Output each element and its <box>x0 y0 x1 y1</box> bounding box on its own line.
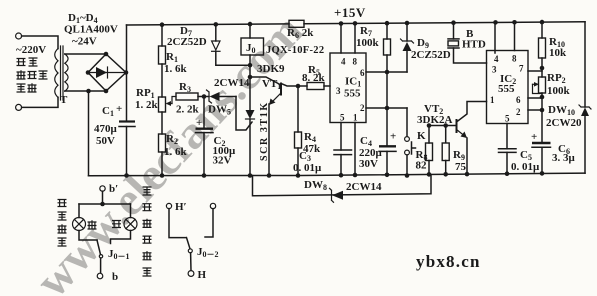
zener diode DW5 2CW14 <box>207 90 212 103</box>
svg-text:3DK9: 3DK9 <box>257 63 285 75</box>
svg-text:~220V: ~220V <box>16 44 46 56</box>
svg-text:2CW14: 2CW14 <box>214 77 250 89</box>
wire R3 to node <box>198 96 209 98</box>
SCR thyristor <box>246 110 255 119</box>
resistor R8 <box>428 126 430 144</box>
wire <box>22 97 58 107</box>
capacitor C1 electrolytic <box>126 25 128 121</box>
bridge rectifier D1-D4 diamond <box>88 54 126 91</box>
IC1 pin2 wire <box>366 107 407 109</box>
label 来自 <box>17 58 38 66</box>
label 输出 <box>17 83 37 92</box>
svg-text:R6 2k: R6 2k <box>287 27 314 40</box>
svg-text:555: 555 <box>498 83 515 95</box>
node on top rail <box>160 22 165 27</box>
label 稳压器 <box>17 70 48 79</box>
label 绿 <box>88 220 97 229</box>
terminal unnamed <box>210 203 215 208</box>
svg-text:+: + <box>390 131 396 143</box>
svg-text:3: 3 <box>492 65 497 75</box>
wire J0 to SCR <box>249 55 251 110</box>
top rail right part <box>304 22 585 24</box>
IC1 pin6 wire <box>366 71 407 73</box>
svg-text:ybx8.cn: ybx8.cn <box>416 252 481 271</box>
node rail D9 <box>405 21 410 26</box>
node rail R7 <box>385 21 390 26</box>
svg-text:2CW20: 2CW20 <box>546 117 582 129</box>
svg-text:6: 6 <box>516 95 521 105</box>
wire secondary bottom to bridge bottom corner <box>65 90 106 92</box>
label 延时过压显示 vertical <box>143 187 152 276</box>
wire <box>22 36 58 49</box>
capacitor C4 electrolytic <box>385 106 390 111</box>
svg-text:1. 6k: 1. 6k <box>164 146 188 158</box>
transistor VT2 <box>429 125 457 127</box>
svg-text:H: H <box>198 269 207 281</box>
svg-text:4: 4 <box>494 54 499 64</box>
wire <box>161 64 163 97</box>
svg-text:T: T <box>60 94 68 106</box>
svg-text:50V: 50V <box>96 135 115 147</box>
zener DW10 2CW20 <box>584 22 586 107</box>
resistor R9 <box>445 126 447 143</box>
svg-text:5: 5 <box>340 113 345 123</box>
svg-text:2. 2k: 2. 2k <box>176 104 200 116</box>
capacitor C6 electrolytic <box>532 142 551 144</box>
switch K <box>406 108 408 136</box>
wire VT1 emitter to ground <box>268 104 270 176</box>
svg-text:6: 6 <box>360 68 365 78</box>
svg-text:8. 2k: 8. 2k <box>302 72 326 84</box>
svg-text:+: + <box>116 103 122 115</box>
resistor R10 <box>541 22 543 38</box>
svg-text:10k: 10k <box>549 47 567 59</box>
IC2 pin6 wire <box>528 97 542 99</box>
svg-text:b: b <box>112 271 118 283</box>
resistor R6 (series in rail) <box>289 20 304 27</box>
lamp red <box>130 204 132 218</box>
IC2 pin8 wire <box>514 23 516 51</box>
transformer T secondary winding <box>65 54 68 91</box>
node top rail J0 <box>248 22 253 27</box>
node rail R10 <box>540 20 545 25</box>
relay coil J0 <box>241 38 264 55</box>
svg-text:30V: 30V <box>359 158 378 170</box>
svg-text:QL1A400V: QL1A400V <box>64 24 118 36</box>
svg-text:470μ: 470μ <box>94 123 118 135</box>
capacitor C3 <box>334 149 352 151</box>
switch J0-1 <box>97 240 101 255</box>
svg-text:+: + <box>196 117 202 129</box>
lamp green <box>78 204 80 218</box>
bottom rail <box>89 173 586 176</box>
svg-text:1. 2k: 1. 2k <box>135 99 159 111</box>
switch J0-2 <box>187 238 191 249</box>
wire bridge-left down to bottom rail <box>88 91 90 176</box>
svg-text:JQX-10F-22: JQX-10F-22 <box>266 45 324 56</box>
svg-text:8: 8 <box>512 54 517 64</box>
input terminal bottom <box>16 104 22 110</box>
svg-text:~24V: ~24V <box>72 36 97 48</box>
svg-text:b′: b′ <box>109 183 118 195</box>
svg-text:2CZ52D: 2CZ52D <box>167 36 207 48</box>
IC1 pin8 wire <box>354 23 356 53</box>
resistor R1 <box>159 46 166 64</box>
wire secondary top to bridge top corner <box>65 53 106 55</box>
svg-text:32V: 32V <box>213 155 232 167</box>
wire RP2 to C6 <box>541 93 543 142</box>
bridge internal diode <box>88 72 126 74</box>
IC1 555 <box>330 53 366 123</box>
svg-text:5: 5 <box>505 114 510 124</box>
input terminal top <box>16 33 22 39</box>
transformer T primary winding <box>55 49 58 98</box>
svg-text:SCR 3T1K: SCR 3T1K <box>259 101 270 161</box>
capacitor C5 <box>499 148 517 150</box>
svg-text:2CW14: 2CW14 <box>346 181 382 193</box>
wire <box>161 112 163 134</box>
wire <box>249 24 251 38</box>
IC2 pin4 wire <box>494 23 496 54</box>
wire <box>161 152 163 176</box>
svg-text:0. 01μ: 0. 01μ <box>511 161 540 173</box>
potentiometer RP1 <box>159 97 166 112</box>
svg-text:100k: 100k <box>356 37 380 49</box>
svg-text:1: 1 <box>490 95 495 105</box>
resistor R4 <box>297 86 299 132</box>
diode D7 2CZ52D <box>215 24 217 41</box>
terminal b <box>97 273 103 279</box>
svg-text:3. 3μ: 3. 3μ <box>552 152 576 164</box>
bridge corner nodes <box>104 52 109 57</box>
svg-text:1. 6k: 1. 6k <box>164 63 188 75</box>
svg-text:K: K <box>417 130 426 142</box>
svg-text:2: 2 <box>360 103 365 113</box>
svg-text:100k: 100k <box>547 85 571 97</box>
terminal H <box>188 271 194 277</box>
svg-text:2: 2 <box>516 107 521 117</box>
svg-text:8: 8 <box>353 57 358 67</box>
IC1 pin4 wire <box>340 24 342 54</box>
svg-text:7: 7 <box>519 64 524 74</box>
diode D9 2CZ52D <box>406 23 408 41</box>
transformer core <box>61 46 64 100</box>
svg-text:75: 75 <box>455 161 467 173</box>
svg-text:H′: H′ <box>175 201 187 213</box>
svg-text:2CZ52D: 2CZ52D <box>411 49 451 61</box>
terminal H' <box>166 203 171 208</box>
terminal b' <box>100 186 105 191</box>
svg-text:555: 555 <box>344 88 361 100</box>
label 红 <box>112 221 121 228</box>
svg-text:+: + <box>531 131 537 143</box>
svg-text:0. 01μ: 0. 01μ <box>293 162 322 174</box>
label 工作显示 vertical <box>58 200 67 247</box>
wire DW5 to SCR gate <box>236 97 252 131</box>
svg-text:HTD: HTD <box>462 39 486 51</box>
watermark www.elecfans.com diagonal 1 <box>26 5 313 296</box>
IC1 pin5 wire + C3 <box>340 123 342 151</box>
potentiometer RP2 <box>539 77 546 93</box>
node bridge left to ground rail <box>86 89 91 94</box>
wire <box>161 25 163 46</box>
resistor R3 <box>176 93 198 100</box>
resistor R2 <box>159 134 166 152</box>
svg-text:82: 82 <box>416 160 428 172</box>
node top rail D7 <box>214 22 219 27</box>
resistor R5 <box>298 85 307 87</box>
IC1 pin1 wire <box>354 123 356 176</box>
IC2 pin5 wire + C5 <box>506 124 508 149</box>
svg-text:4: 4 <box>341 57 346 67</box>
IC2 pin2 wire <box>528 109 542 111</box>
svg-text:+15V: +15V <box>334 5 366 20</box>
top rail left part <box>127 24 290 25</box>
svg-text:1: 1 <box>353 113 358 123</box>
svg-text:3: 3 <box>336 86 341 96</box>
capacitor C2 electrolytic <box>203 97 205 129</box>
resistor R7 <box>386 23 388 39</box>
IC2 pin7 wire <box>528 70 542 72</box>
